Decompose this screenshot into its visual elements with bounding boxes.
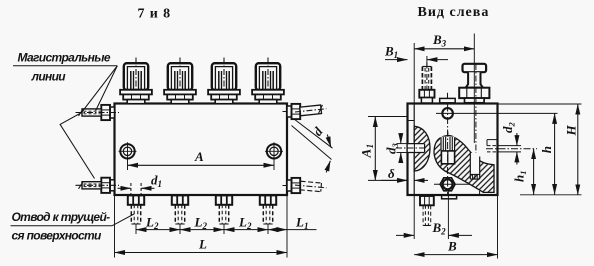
- svg-text:7 и 8: 7 и 8: [138, 7, 172, 22]
- dimension L1: [268, 215, 317, 232]
- dimension h: [539, 113, 555, 194]
- svg-text:Отвод к трущей-: Отвод к трущей-: [12, 210, 111, 224]
- d2 hidden hole right face: [486, 140, 537, 152]
- extension line L left: [114, 196, 116, 258]
- cap fitting side silhouette: [459, 34, 489, 156]
- rear stud top: [419, 63, 434, 104]
- center line top hole / h extension: [436, 112, 558, 114]
- svg-text:L2: L2: [194, 215, 208, 232]
- left fitting top: [76, 105, 120, 120]
- svg-text:B: B: [447, 239, 457, 254]
- dimension A1: [359, 117, 409, 181]
- svg-text:B1: B1: [384, 44, 398, 61]
- svg-text:d2: d2: [500, 122, 517, 134]
- bottom stud 3: [216, 195, 232, 234]
- dimension d2: [499, 122, 522, 165]
- hole circle top: [442, 108, 453, 119]
- dimension B3: [414, 32, 474, 104]
- bottom stud left view: [420, 196, 434, 226]
- dimension H: [498, 104, 582, 195]
- top pad: [440, 93, 456, 103]
- dimension d: [310, 124, 331, 173]
- svg-text:A: A: [194, 149, 204, 164]
- right channel gap: [470, 153, 479, 180]
- dimension h1: [512, 149, 534, 195]
- bottom stud 2: [172, 195, 188, 234]
- dimension d1: [118, 173, 163, 196]
- svg-text:L2: L2: [238, 215, 252, 232]
- bottom stud 4: [260, 195, 276, 234]
- dimension chain L2: [136, 215, 268, 232]
- annotation outlet: [11, 210, 113, 243]
- center line bottom hole: [434, 183, 470, 185]
- svg-text:L: L: [198, 237, 207, 252]
- top fitting 2: [164, 58, 196, 104]
- right fitting top: [283, 104, 327, 119]
- hole circle bottom with hex: [440, 178, 455, 191]
- svg-text:d: d: [310, 124, 326, 139]
- dimension A: [128, 149, 275, 170]
- dimension L: [115, 237, 288, 253]
- channel section center: [434, 136, 494, 193]
- top fitting 4: [252, 58, 284, 104]
- left fitting bottom: [76, 178, 120, 193]
- svg-text:L2: L2: [145, 215, 159, 232]
- right fitting bottom: [283, 178, 327, 193]
- svg-text:A1: A1: [359, 144, 376, 159]
- svg-text:d3: d3: [383, 143, 400, 155]
- mounting hole right: [265, 142, 283, 160]
- svg-text:линии: линии: [31, 70, 67, 84]
- svg-text:Вид слева: Вид слева: [418, 5, 490, 20]
- svg-text:δ: δ: [388, 166, 395, 181]
- svg-text:B3: B3: [432, 32, 447, 49]
- svg-text:Магистральные: Магистральные: [18, 51, 111, 65]
- body block left view: [408, 104, 498, 196]
- vertical channel hole: [440, 137, 455, 151]
- svg-text:B2: B2: [432, 220, 447, 237]
- dimension B1: [384, 44, 448, 67]
- port hole left face: [396, 144, 427, 153]
- center line vertical holes: [447, 105, 449, 200]
- mounting hole left: [119, 142, 137, 160]
- annotation main lines: [13, 51, 117, 84]
- tube extension lines right: [294, 119, 333, 148]
- svg-text:H: H: [563, 125, 578, 137]
- leader to top left fitting: [96, 66, 118, 111]
- svg-text:ся поверхности: ся поверхности: [12, 228, 103, 242]
- top fitting 3: [208, 58, 240, 104]
- leader to bottom left fitting: [60, 66, 117, 179]
- cavity: [441, 132, 454, 164]
- face step: [408, 120, 415, 122]
- boss section left: [414, 126, 430, 171]
- leader to stud 1: [112, 214, 134, 226]
- body block front view: [115, 104, 288, 196]
- section edge tick: [479, 191, 481, 195]
- bottom pad: [442, 195, 457, 198]
- dimension B: [414, 196, 497, 259]
- inner face line: [413, 104, 415, 196]
- extension line L right: [286, 196, 288, 258]
- dimension B2: [396, 190, 472, 239]
- dimension d3: [383, 133, 408, 163]
- svg-text:L1: L1: [295, 215, 308, 232]
- top fitting 1: [120, 58, 152, 104]
- bottom stud 1: [128, 195, 144, 234]
- svg-text:h1: h1: [512, 171, 529, 182]
- svg-text:h: h: [539, 146, 554, 153]
- dimension v wall: [381, 166, 428, 181]
